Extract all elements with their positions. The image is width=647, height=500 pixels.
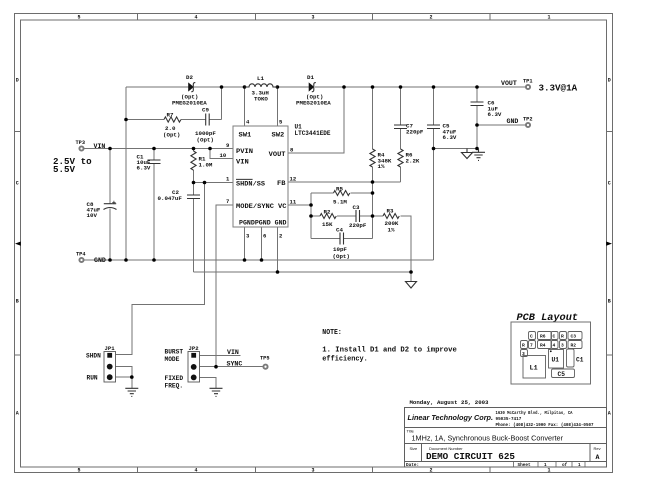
wire C4 row bbox=[311, 238, 373, 240]
wire C8 branch vertical bbox=[109, 149, 111, 261]
svg-text:3: 3 bbox=[311, 15, 314, 21]
svg-text:VOUT: VOUT bbox=[269, 151, 286, 158]
svg-text:PMEG2010EA: PMEG2010EA bbox=[172, 100, 207, 107]
svg-text:0.047uF: 0.047uF bbox=[158, 195, 183, 202]
svg-text:GND: GND bbox=[507, 118, 519, 125]
svg-text:3: 3 bbox=[522, 351, 525, 357]
wire R4 branch bbox=[372, 87, 374, 182]
ground symbol earth at JP1 bbox=[125, 388, 138, 396]
wire top rail D2 cathode to SW1 node bbox=[194, 86, 245, 88]
svg-text:1.0M: 1.0M bbox=[199, 162, 213, 169]
pcb part R7 pad a bbox=[521, 341, 528, 349]
svg-text:JP1: JP1 bbox=[105, 345, 116, 352]
svg-text:12: 12 bbox=[290, 176, 297, 183]
svg-text:C3: C3 bbox=[353, 204, 360, 211]
svg-text:C: C bbox=[608, 181, 611, 187]
pcb C5 outline bbox=[552, 369, 575, 378]
wire C5 branch bbox=[433, 87, 435, 149]
testpoint TP2 bbox=[526, 123, 530, 127]
svg-text:D1: D1 bbox=[307, 74, 314, 81]
capacitor C8 polarized bbox=[104, 201, 117, 210]
ground symbol power at R3 analog rail bbox=[406, 282, 417, 289]
capacitor C9 bbox=[206, 114, 210, 126]
wire GND to TP2 bbox=[477, 124, 525, 126]
svg-text:2.2K: 2.2K bbox=[406, 157, 420, 164]
wire R2 C3 row bbox=[311, 215, 373, 217]
svg-text:1: 1 bbox=[547, 15, 550, 21]
svg-text:R2: R2 bbox=[324, 208, 331, 215]
capacitor C2 bbox=[187, 195, 200, 199]
svg-text:(Opt): (Opt) bbox=[163, 132, 180, 139]
wire C6 branch bbox=[476, 87, 478, 149]
svg-text:efficiency.: efficiency. bbox=[322, 356, 368, 364]
svg-text:D: D bbox=[16, 78, 19, 84]
svg-text:10: 10 bbox=[220, 152, 227, 159]
svg-text:15K: 15K bbox=[322, 221, 333, 228]
svg-text:C1: C1 bbox=[576, 357, 584, 364]
resistor R1 bbox=[191, 151, 196, 170]
pcb U1 pin1 dot bbox=[550, 350, 552, 352]
pcb part C3 pads bbox=[551, 332, 558, 340]
testpoint TP1 bbox=[526, 85, 530, 89]
pcb part C7 pads bbox=[529, 332, 536, 340]
svg-text:C4: C4 bbox=[336, 227, 343, 234]
wire VIN pin jog bbox=[210, 149, 233, 159]
resistor R7 bbox=[164, 117, 181, 122]
wire SW2 pin 5 bbox=[277, 87, 279, 126]
svg-text:SHDN: SHDN bbox=[86, 353, 101, 360]
NOTE text bbox=[322, 329, 457, 364]
svg-text:1630 McCarthy Blvd., Milpitas,: 1630 McCarthy Blvd., Milpitas, CA bbox=[496, 411, 573, 416]
svg-text:3: 3 bbox=[561, 343, 564, 349]
svg-text:RUN: RUN bbox=[87, 374, 98, 381]
svg-text:TP3: TP3 bbox=[76, 140, 86, 146]
resistor R4 bbox=[370, 149, 375, 167]
svg-text:VIN: VIN bbox=[236, 158, 249, 165]
wire R5 row bbox=[311, 192, 373, 194]
wire C5 return riser bbox=[433, 149, 435, 261]
svg-text:LTC3441EDE: LTC3441EDE bbox=[295, 130, 331, 137]
svg-text:of: of bbox=[562, 463, 568, 468]
wire top rail SW2 node to D1 anode bbox=[277, 86, 309, 88]
svg-text:5.1M: 5.1M bbox=[333, 198, 347, 205]
connector JP2 bbox=[188, 352, 200, 383]
wire feedback network left rail bbox=[310, 193, 312, 239]
svg-text:BURST: BURST bbox=[165, 349, 184, 356]
svg-text:(Opt): (Opt) bbox=[333, 253, 350, 260]
wire MODE/SYNC pin to drop column bbox=[216, 205, 233, 367]
svg-text:DEMO CIRCUIT 625: DEMO CIRCUIT 625 bbox=[426, 451, 515, 462]
svg-text:FIXED: FIXED bbox=[165, 375, 184, 382]
svg-text:Date:: Date: bbox=[406, 463, 419, 468]
pcb part R3 pads bbox=[560, 341, 567, 349]
ground symbol earth at JP2 bbox=[210, 388, 223, 396]
svg-text:A: A bbox=[16, 411, 19, 417]
pcb part R4 pads bbox=[538, 341, 552, 349]
svg-text:L1: L1 bbox=[257, 75, 264, 82]
svg-text:6.3V: 6.3V bbox=[137, 165, 151, 172]
svg-text:B: B bbox=[16, 299, 19, 305]
wire IC ground pin 3 bbox=[244, 227, 246, 260]
wire SYNC row to TP5 bbox=[200, 366, 263, 368]
zone ticks right bbox=[607, 132, 613, 356]
svg-text:4: 4 bbox=[553, 343, 556, 349]
wire R3 row and ground drop bbox=[373, 216, 412, 282]
pcb part R7 pad b bbox=[529, 341, 536, 349]
svg-text:7: 7 bbox=[226, 198, 229, 205]
inductor L1 bbox=[245, 84, 278, 87]
capacitor C6 bbox=[471, 102, 484, 106]
wire C5 C6 ground tie bbox=[434, 148, 479, 150]
diode D1 schottky bbox=[309, 83, 316, 92]
svg-text:Monday, August 25, 2003: Monday, August 25, 2003 bbox=[410, 399, 490, 406]
wire C1 branch vertical bbox=[153, 149, 155, 261]
svg-text:3: 3 bbox=[311, 468, 314, 474]
capacitor C4 bbox=[340, 233, 344, 245]
U1 pin numbers bbox=[220, 119, 297, 240]
wire VC pin 11 bbox=[288, 204, 311, 206]
pcb C1 outline bbox=[567, 349, 575, 367]
wire JP2 FIXED FREQ pin to ground bbox=[200, 378, 217, 389]
capacitor C1 bbox=[148, 160, 161, 164]
svg-text:D2: D2 bbox=[186, 74, 193, 81]
wire C7 R6 branch bbox=[400, 87, 402, 182]
svg-text:C5: C5 bbox=[558, 371, 566, 378]
wire SHDN jumper link bbox=[116, 183, 205, 355]
svg-text:C: C bbox=[16, 181, 19, 187]
zone ticks bottom bbox=[138, 467, 491, 473]
svg-text:7: 7 bbox=[530, 343, 533, 349]
svg-text:1: 1 bbox=[544, 463, 547, 468]
wire JP1 middle pin to ground column bbox=[116, 367, 132, 378]
svg-text:A: A bbox=[608, 411, 611, 417]
svg-text:(Opt): (Opt) bbox=[197, 137, 214, 144]
svg-text:FREQ.: FREQ. bbox=[165, 383, 184, 390]
svg-text:PGNDPGND GND: PGNDPGND GND bbox=[239, 220, 287, 227]
svg-text:GND: GND bbox=[94, 257, 106, 264]
svg-text:C: C bbox=[553, 334, 556, 340]
zone numbers bottom bbox=[77, 468, 550, 474]
zone letters right bbox=[608, 78, 611, 417]
wire VOUT pin 8 riser bbox=[288, 87, 344, 153]
svg-text:11: 11 bbox=[290, 199, 297, 206]
wire FB node riser bbox=[372, 182, 374, 239]
svg-text:D: D bbox=[608, 78, 611, 84]
svg-text:U1: U1 bbox=[552, 357, 560, 364]
resistor R5 bbox=[334, 191, 350, 196]
svg-text:1%: 1% bbox=[388, 227, 395, 234]
pcb L1 outline bbox=[523, 356, 546, 379]
ground symbol power at C5 bbox=[462, 149, 473, 159]
svg-text:10V: 10V bbox=[87, 212, 98, 219]
svg-text:Rev: Rev bbox=[594, 446, 601, 451]
svg-text:5: 5 bbox=[77, 468, 80, 474]
svg-text:L1: L1 bbox=[530, 365, 538, 373]
wire SHDN/SS row bbox=[194, 182, 234, 184]
svg-text:R3: R3 bbox=[387, 207, 394, 214]
pcb tiny labels bbox=[522, 334, 576, 358]
svg-text:R4: R4 bbox=[540, 343, 546, 349]
wire C2 leads and drop to analog ground rail bbox=[193, 183, 195, 273]
svg-text:C3: C3 bbox=[571, 334, 577, 340]
svg-text:4: 4 bbox=[194, 15, 197, 21]
wire JP2 BURST pin to VIN label bbox=[200, 354, 241, 356]
connector JP1 bbox=[104, 352, 116, 383]
svg-text:FB: FB bbox=[277, 180, 286, 187]
pcb part C2 pads bbox=[568, 332, 582, 340]
center marker arrow left border bbox=[15, 242, 21, 246]
pcb part R5 pad bbox=[521, 350, 528, 357]
company address bbox=[496, 411, 594, 428]
wire top rail VIN-side segment to D2 anode bbox=[126, 86, 189, 88]
svg-text:2: 2 bbox=[429, 468, 432, 474]
svg-text:TP4: TP4 bbox=[76, 252, 86, 258]
svg-text:C: C bbox=[530, 334, 533, 340]
date / sheet row bbox=[406, 463, 581, 468]
svg-text:PMEG2010EA: PMEG2010EA bbox=[296, 100, 331, 107]
diode D2 schottky bbox=[189, 83, 196, 92]
svg-text:VIN: VIN bbox=[94, 143, 106, 150]
svg-text:NOTE:: NOTE: bbox=[322, 329, 342, 337]
testpoint TP4 bbox=[79, 258, 83, 262]
svg-text:R: R bbox=[561, 334, 564, 340]
capacitor C5 bbox=[427, 125, 440, 129]
svg-text:1%: 1% bbox=[378, 163, 385, 170]
svg-text:1MHz, 1A, Synchronous Buck-Boo: 1MHz, 1A, Synchronous Buck-Boost Convert… bbox=[412, 434, 564, 443]
svg-text:1: 1 bbox=[578, 463, 581, 468]
svg-text:R: R bbox=[522, 343, 525, 349]
svg-text:5: 5 bbox=[77, 15, 80, 21]
svg-text:4: 4 bbox=[194, 468, 197, 474]
svg-text:TP1: TP1 bbox=[523, 79, 533, 85]
resistor R6 bbox=[398, 149, 403, 167]
svg-text:PVIN: PVIN bbox=[236, 148, 253, 155]
svg-text:R7: R7 bbox=[167, 111, 174, 118]
resistor R3 bbox=[383, 214, 399, 219]
resistor R2 bbox=[320, 214, 336, 219]
svg-text:6.3V: 6.3V bbox=[443, 134, 457, 141]
zone ticks top bbox=[138, 14, 491, 21]
center marker arrow right border bbox=[606, 242, 612, 246]
svg-text:1: 1 bbox=[547, 468, 550, 474]
wire JP1 RUN pin row bbox=[116, 377, 132, 388]
svg-text:TP5: TP5 bbox=[260, 356, 270, 362]
pcb U1 outline bbox=[549, 350, 564, 369]
svg-text:Linear Technology Corp.: Linear Technology Corp. bbox=[408, 413, 494, 422]
svg-text:SW2: SW2 bbox=[272, 132, 285, 139]
op-amp U1 IC body LTC3441EDE bbox=[233, 126, 288, 227]
svg-text:A: A bbox=[596, 454, 600, 461]
svg-text:R2: R2 bbox=[571, 343, 577, 349]
svg-text:VIN: VIN bbox=[227, 349, 239, 356]
wire IC ground pin 2 bbox=[277, 227, 279, 272]
svg-text:JP2: JP2 bbox=[189, 345, 200, 352]
svg-text:Sheet: Sheet bbox=[518, 463, 532, 468]
svg-text:B: B bbox=[608, 299, 611, 305]
svg-text:R5: R5 bbox=[336, 186, 343, 193]
pcb part C4 pads bbox=[551, 341, 558, 349]
wire VIN rail TP3 to PVIN pin bbox=[85, 148, 234, 150]
wire GND rail TP4 to C5 return bbox=[85, 259, 434, 261]
svg-text:Size: Size bbox=[410, 446, 419, 451]
svg-text:1. Install D1 and D2 to impro: 1. Install D1 and D2 to improve bbox=[322, 347, 457, 355]
svg-text:2: 2 bbox=[429, 15, 432, 21]
svg-text:220pF: 220pF bbox=[349, 222, 367, 229]
pcb part R2 pads bbox=[568, 341, 582, 349]
wire FB row pin 12 bbox=[288, 181, 401, 183]
wire IC ground pin 6 bbox=[261, 227, 263, 260]
svg-text:6.3V: 6.3V bbox=[488, 111, 502, 118]
svg-text:R6: R6 bbox=[540, 334, 546, 340]
ground symbol earth at C6 bbox=[472, 149, 485, 161]
zone ticks left bbox=[15, 132, 21, 356]
wire SW1 pin 4 bbox=[244, 87, 246, 126]
svg-text:3.3V@1A: 3.3V@1A bbox=[539, 83, 578, 94]
pcb part R6 pads bbox=[538, 332, 552, 340]
zone letters left bbox=[16, 78, 19, 417]
node junction dots bbox=[108, 85, 479, 379]
pcb part R pads bbox=[560, 332, 567, 340]
wire top rail D1 cathode to TP1 bbox=[315, 86, 525, 88]
svg-text:SW1: SW1 bbox=[239, 132, 252, 139]
svg-text:95035-7417: 95035-7417 bbox=[496, 417, 522, 422]
pcb layout box bbox=[511, 322, 591, 384]
svg-text:220pF: 220pF bbox=[406, 128, 424, 135]
svg-text:SYNC: SYNC bbox=[227, 361, 243, 368]
svg-text:TOKO: TOKO bbox=[254, 95, 268, 102]
capacitor C7 bbox=[394, 125, 407, 129]
wire GND net left vertical D2 anode to ground rail bbox=[125, 87, 127, 260]
wire snubber rail R7 C9 row bbox=[126, 87, 222, 120]
testpoint TP5 bbox=[263, 365, 267, 369]
zone numbers top bbox=[77, 15, 550, 21]
testpoint TP3 bbox=[79, 146, 83, 150]
wire analog ground rail bbox=[194, 271, 412, 273]
wire R1 leads bbox=[193, 149, 195, 183]
svg-text:Phone: (408)432-1900 Fax: (408: Phone: (408)432-1900 Fax: (408)434-0507 bbox=[496, 423, 594, 428]
svg-text:5.5V: 5.5V bbox=[53, 164, 76, 175]
svg-text:TP2: TP2 bbox=[523, 117, 533, 123]
svg-text:SHDN/SS: SHDN/SS bbox=[236, 181, 265, 188]
svg-text:VOUT: VOUT bbox=[501, 80, 517, 87]
capacitor C3 bbox=[356, 210, 360, 222]
svg-text:MODE/SYNC: MODE/SYNC bbox=[236, 203, 274, 210]
svg-text:C9: C9 bbox=[202, 107, 209, 114]
svg-text:VC: VC bbox=[278, 203, 287, 210]
svg-text:MODE: MODE bbox=[165, 356, 180, 363]
